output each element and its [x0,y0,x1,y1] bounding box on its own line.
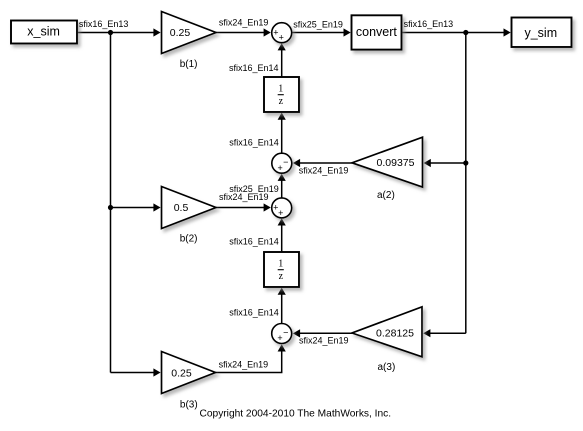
svg-text:+: + [279,33,284,43]
svg-text:sfix16_En14: sfix16_En14 [229,63,279,73]
svg-text:0.25: 0.25 [170,27,191,39]
wire sum S1 to convert [292,28,351,36]
label sfix24_En19 on b(3) wire [219,359,269,369]
svg-text:sfix16_En14: sfix16_En14 [229,236,279,246]
sum S1 [272,23,292,43]
svg-text:x_sim: x_sim [27,25,60,39]
gain b(3) [162,352,216,394]
svg-text:a(3): a(3) [378,362,396,373]
svg-text:b(1): b(1) [180,59,198,70]
svg-text:1: 1 [278,84,283,95]
svg-text:sfix24_En19: sfix24_En19 [299,165,349,175]
label b(3) [180,399,198,410]
wire sum SB2 up to sum SA2 [278,174,286,198]
wire b(3) to sum SA3 [216,344,286,372]
inport block x_sim [11,21,77,44]
label sfix24_En19 on a(3) wire [299,336,349,346]
svg-text:b(3): b(3) [180,399,198,410]
wire sum SA3 up to delay2 [278,288,286,324]
gain a(2) [352,137,423,187]
wire to b(3) [111,368,161,376]
wire a(2) to sum SA2 [293,159,352,167]
svg-text:sfix24_En19: sfix24_En19 [219,192,269,202]
svg-text:sfix24_En19: sfix24_En19 [219,18,269,28]
wire b(1) to sum S1 [216,28,271,36]
wire right vertical feedback bus [465,33,467,334]
label sfix16_En14 on SA2 output [229,138,279,148]
wire to a(2) [424,159,466,167]
gain a(3) [352,307,422,357]
label sfix16_En14 on delay1 output [229,63,279,73]
svg-text:z: z [279,271,284,282]
label sfix24_En19 on b(1) wire [219,18,269,28]
node junction feedback [463,30,468,35]
convert block [352,15,402,49]
wire sum SA2 up to delay1 [278,113,286,154]
node junction on x_sim output [108,30,113,35]
svg-text:b(2): b(2) [180,234,198,245]
svg-text:sfix16_En14: sfix16_En14 [229,307,279,317]
sum SA2 [272,153,292,173]
node junction to b(2) [108,205,113,210]
label sfix16_En13 on x_sim wire [79,19,129,29]
svg-text:sfix24_En19: sfix24_En19 [219,359,269,369]
label sfix24_En19 on a(2) wire [299,165,349,175]
svg-text:−: − [283,157,288,167]
unit delay block 1/z lower [264,252,299,287]
wire to b(2) [111,203,161,211]
svg-text:sfix16_En13: sfix16_En13 [79,19,129,29]
label sfix16_En13 on convert output [404,19,454,29]
svg-text:z: z [279,96,284,107]
svg-text:0.5: 0.5 [174,202,189,214]
svg-text:+: + [277,163,282,173]
sum SA3 [272,324,292,344]
svg-text:a(2): a(2) [377,190,395,201]
svg-text:sfix16_En13: sfix16_En13 [404,19,454,29]
sum SB2 [272,198,292,218]
svg-text:0.28125: 0.28125 [376,327,414,339]
node junction to a(2) [463,160,468,165]
wire to a(3) [423,329,466,337]
unit delay block 1/z upper [264,77,299,112]
label sfix25_En19 on S1 output [293,19,343,29]
wire delay2 up to sum SB2 [278,218,286,252]
svg-text:y_sim: y_sim [524,26,557,40]
svg-text:convert: convert [356,25,398,39]
label a(2) [377,190,395,201]
label sfix16_En14 on SA3 output [229,307,279,317]
svg-text:sfix25_En19: sfix25_En19 [293,19,343,29]
gain b(2) [162,187,217,229]
svg-text:−: − [283,328,288,338]
svg-text:sfix16_En14: sfix16_En14 [229,138,279,148]
svg-text:Copyright 2004-2010 The MathWo: Copyright 2004-2010 The MathWorks, Inc. [200,408,392,419]
outport block y_sim [512,18,572,48]
wire convert to y_sim [402,28,511,36]
label sfix24_En19 on b(2) wire [219,192,269,202]
label sfix25_En19 on SB2 output [229,184,279,194]
svg-text:sfix24_En19: sfix24_En19 [299,336,349,346]
label copyright [200,408,392,419]
wire left vertical bus [110,33,112,373]
wire a(3) to sum SA3 [293,329,352,337]
svg-text:1: 1 [278,259,283,270]
wire b(2) to sum SB2 [216,203,271,211]
svg-text:0.25: 0.25 [171,367,192,379]
wire x_sim to b(1) [77,28,161,36]
svg-text:0.09375: 0.09375 [377,157,415,169]
svg-text:+: + [278,208,283,218]
label b(2) [180,234,198,245]
svg-text:+: + [277,333,282,343]
gain b(1) [162,12,217,54]
label b(1) [180,59,198,70]
label a(3) [378,362,396,373]
label sfix16_En14 on delay2 output [229,236,279,246]
wire delay1 up to sum S1 [278,43,286,77]
